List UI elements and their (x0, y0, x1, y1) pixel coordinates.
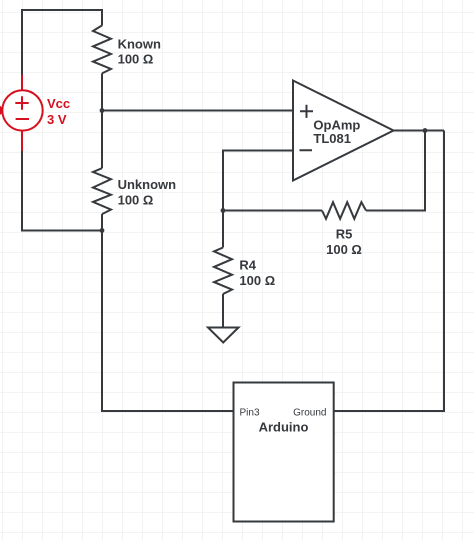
svg-text:Vcc: Vcc (47, 96, 70, 111)
resistor Unknown (93, 168, 111, 214)
label R4 100 Ohm (239, 258, 275, 289)
svg-text:Unknown: Unknown (118, 177, 177, 192)
wire node B down to Arduino Pin3 (102, 231, 233, 412)
svg-text:3 V: 3 V (47, 112, 67, 127)
wire node C to resistor R4 (222, 211, 224, 248)
ground (208, 328, 239, 343)
svg-text:Arduino: Arduino (259, 420, 309, 435)
label Known 100 Ohm (118, 37, 161, 67)
wire resistor R4 to ground (222, 294, 224, 328)
resistor Known (93, 25, 111, 73)
wire op-amp inverting input to node C (223, 151, 293, 211)
svg-text:Ground: Ground (293, 407, 326, 418)
label OpAmp TL081 (313, 117, 360, 146)
svg-text:Pin3: Pin3 (240, 407, 260, 418)
wire right side down to Arduino Ground (334, 131, 444, 412)
Arduino box (234, 383, 334, 522)
wire resistor R5 to output feedback corner (366, 131, 425, 211)
wire node A to Unknown resistor (101, 111, 103, 169)
node B junction dot (100, 228, 105, 233)
wire top from Vcc loop corner to Known resistor (22, 10, 102, 75)
wire node C to resistor R5 (223, 210, 322, 212)
label R5 100 Ohm (326, 227, 362, 258)
wire Known resistor to node A (101, 73, 103, 110)
op-amp U1 (293, 81, 394, 181)
wire op-amp output to right corner (394, 130, 445, 132)
svg-text:Known: Known (118, 37, 161, 52)
label Arduino (259, 420, 309, 435)
svg-text:100 Ω: 100 Ω (118, 192, 154, 207)
label Vcc 3 V (47, 96, 70, 127)
svg-text:100 Ω: 100 Ω (239, 273, 275, 288)
wire left Vcc bottom lead to bottom corner (22, 151, 102, 231)
svg-text:100 Ω: 100 Ω (118, 51, 154, 66)
wire Unknown resistor to node B (101, 214, 103, 230)
resistor R5 (322, 202, 366, 219)
node A junction dot (100, 108, 105, 113)
voltage source Vcc (0, 90, 43, 130)
wire node A to op-amp non-inverting input (102, 110, 293, 112)
label Unknown 100 Ohm (118, 177, 177, 207)
svg-text:100 Ω: 100 Ω (326, 242, 362, 257)
output node junction dot (423, 128, 428, 133)
pin label Ground (293, 407, 326, 418)
pin label Pin3 (240, 407, 260, 418)
svg-text:R5: R5 (336, 227, 353, 242)
svg-text:R4: R4 (239, 258, 256, 273)
resistor R4 (214, 248, 232, 295)
wire red Vcc terminal leads (21, 75, 23, 151)
node C junction dot (221, 208, 226, 213)
svg-text:TL081: TL081 (313, 131, 351, 146)
